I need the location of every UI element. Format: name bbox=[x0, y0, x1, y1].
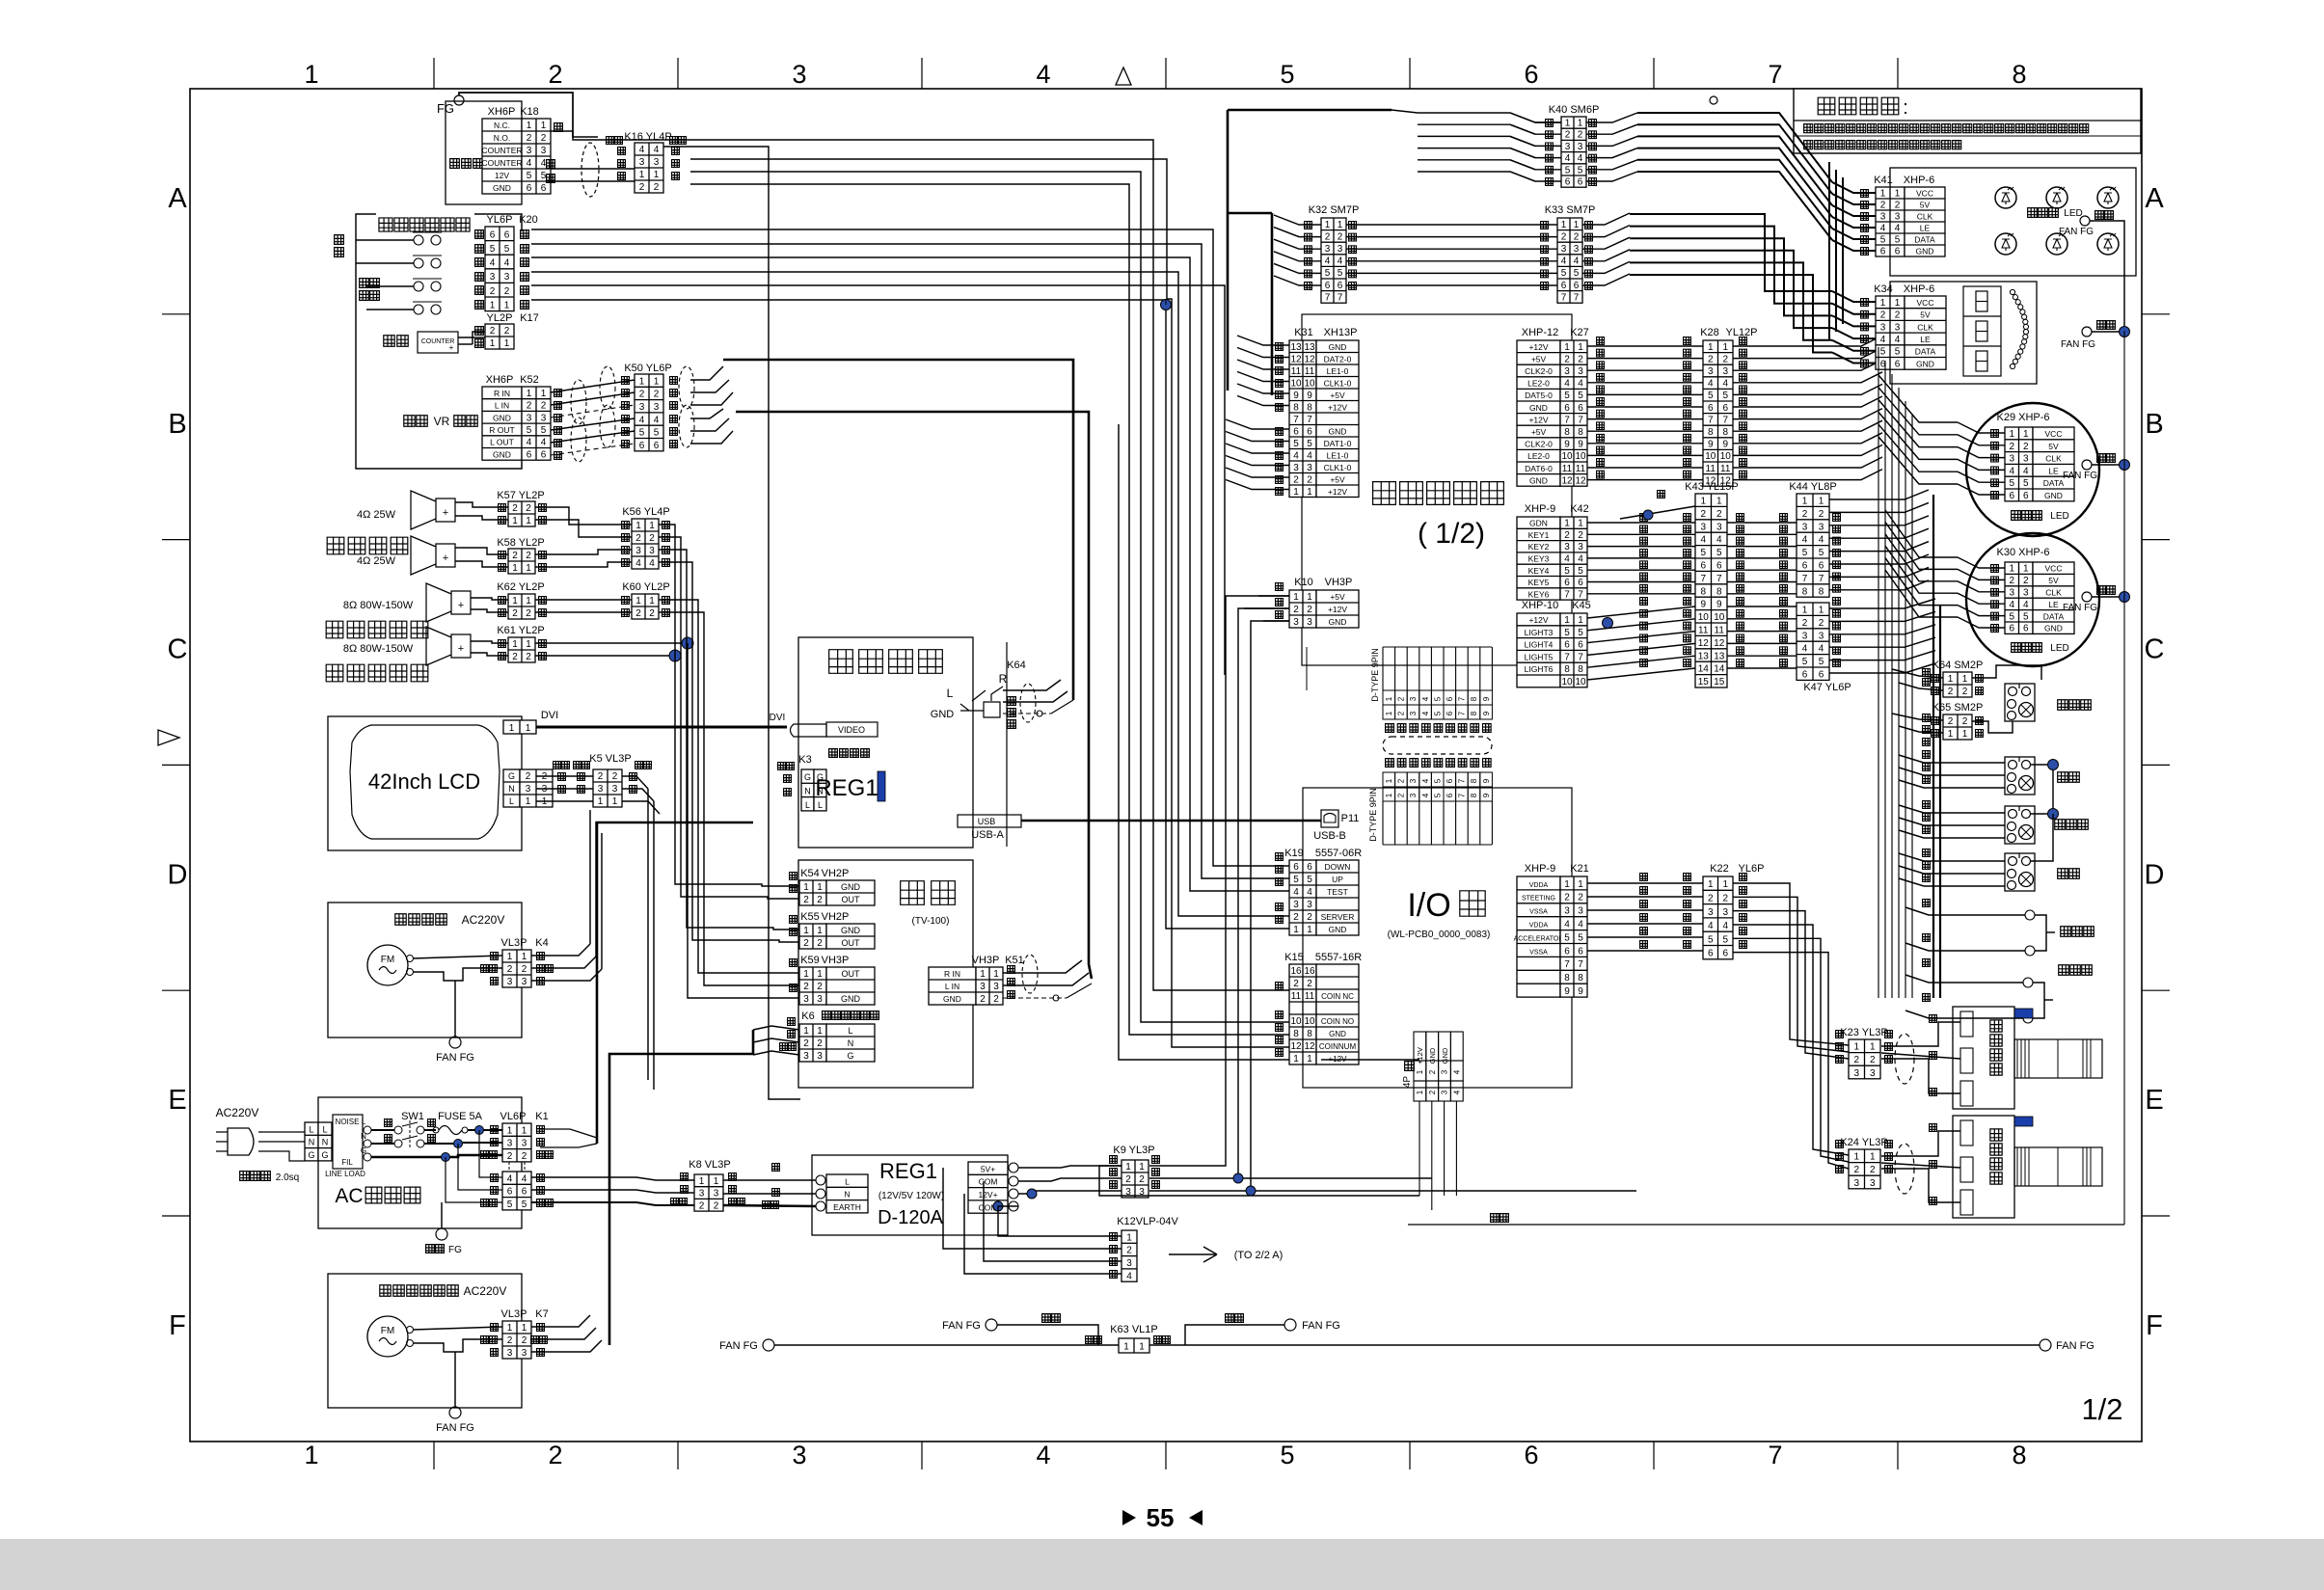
svg-text:K22: K22 bbox=[1710, 863, 1729, 875]
svg-text:1: 1 bbox=[699, 1176, 705, 1187]
IO board box bbox=[1303, 788, 1572, 1088]
svg-text:2: 2 bbox=[526, 771, 531, 782]
svg-text:K6: K6 bbox=[801, 1011, 814, 1022]
svg-text:4: 4 bbox=[2009, 600, 2014, 610]
svg-text:5: 5 bbox=[1565, 165, 1571, 175]
wires K32 to K33 bbox=[1346, 224, 1557, 226]
svg-text:1: 1 bbox=[1948, 729, 1954, 740]
svg-text:5: 5 bbox=[1307, 875, 1312, 885]
svg-text:LE: LE bbox=[1920, 223, 1931, 232]
svg-text:8: 8 bbox=[1716, 586, 1722, 597]
border frame bbox=[190, 89, 2142, 1442]
svg-text:GND: GND bbox=[931, 709, 955, 720]
svg-text:10: 10 bbox=[1561, 677, 1573, 687]
svg-text:K19: K19 bbox=[1284, 848, 1304, 859]
svg-text:5: 5 bbox=[1578, 391, 1583, 401]
svg-text:12: 12 bbox=[1698, 638, 1710, 649]
svg-text:+12V: +12V bbox=[1528, 342, 1548, 352]
connector K52 XH6P bbox=[482, 387, 522, 460]
svg-text:5: 5 bbox=[1338, 268, 1343, 279]
thick earth trunk A bottom fan bbox=[540, 1144, 597, 1147]
svg-text:2: 2 bbox=[803, 982, 809, 992]
svg-text:K7: K7 bbox=[535, 1308, 548, 1320]
chimney right LED circle bbox=[1966, 533, 2099, 666]
svg-text:R: R bbox=[999, 672, 1008, 686]
svg-text:12V+: 12V+ bbox=[978, 1190, 997, 1199]
svg-text:2: 2 bbox=[526, 503, 531, 514]
svg-text:7: 7 bbox=[1578, 415, 1583, 425]
wires K64/K65 to button bbox=[1972, 665, 2041, 680]
svg-text:10: 10 bbox=[1575, 677, 1586, 687]
svg-text:SERVER: SERVER bbox=[1321, 912, 1355, 922]
svg-text:10: 10 bbox=[1714, 612, 1725, 623]
wires K28 right to bus bbox=[1733, 336, 1882, 346]
label 下上 bbox=[335, 235, 344, 245]
svg-text:2: 2 bbox=[1722, 354, 1728, 364]
wires LCD to K5 bbox=[536, 775, 593, 777]
note line 1 bbox=[1804, 124, 1813, 133]
svg-text:XHP-6: XHP-6 bbox=[1904, 283, 1934, 295]
svg-text:4: 4 bbox=[1722, 379, 1728, 390]
wires K20 to column4 bus bbox=[531, 229, 1213, 860]
svg-text:DAT1-0: DAT1-0 bbox=[1324, 439, 1352, 448]
svg-text:1: 1 bbox=[1722, 342, 1728, 353]
svg-text:1: 1 bbox=[1802, 605, 1808, 615]
svg-text:9: 9 bbox=[1564, 986, 1570, 997]
svg-text:VCC: VCC bbox=[1917, 298, 1934, 308]
shield oval K16 left bbox=[581, 143, 599, 197]
svg-text:COUNTER: COUNTER bbox=[481, 158, 522, 168]
gray footer bar bbox=[0, 1539, 2324, 1590]
svg-text:1: 1 bbox=[1564, 879, 1570, 890]
frame row tick bbox=[162, 989, 190, 991]
connector 大4P bbox=[1405, 1062, 1415, 1071]
svg-text:USB-B: USB-B bbox=[1313, 830, 1346, 842]
svg-text:1: 1 bbox=[507, 952, 513, 962]
svg-text:+12V: +12V bbox=[1528, 415, 1548, 424]
svg-text:3: 3 bbox=[1853, 1068, 1859, 1079]
svg-text:LE1-0: LE1-0 bbox=[1327, 366, 1349, 376]
svg-text:1: 1 bbox=[304, 1441, 318, 1469]
svg-text:5: 5 bbox=[1561, 268, 1567, 279]
FAN FG node mid right bbox=[2082, 327, 2092, 337]
junction dots subwoofer bus bbox=[682, 637, 693, 649]
svg-text:+5V: +5V bbox=[1531, 354, 1547, 364]
svg-text:KEY6: KEY6 bbox=[1528, 589, 1550, 599]
svg-text:CLK2-0: CLK2-0 bbox=[1525, 440, 1553, 449]
svg-text:+12V: +12V bbox=[1528, 615, 1548, 625]
frame column tick bbox=[677, 58, 679, 89]
svg-text:2: 2 bbox=[1139, 1174, 1145, 1185]
svg-text:FAN FG: FAN FG bbox=[2063, 471, 2097, 481]
svg-text:10: 10 bbox=[1304, 378, 1315, 389]
svg-text:FM: FM bbox=[381, 955, 394, 965]
svg-text:1: 1 bbox=[803, 969, 809, 980]
svg-text:1: 1 bbox=[817, 926, 823, 936]
svg-text:16: 16 bbox=[1304, 966, 1315, 977]
svg-text:+: + bbox=[443, 552, 448, 564]
speaker horn 1 (4ohm 25W) bbox=[411, 491, 455, 529]
svg-text:3: 3 bbox=[612, 784, 618, 795]
svg-text:4: 4 bbox=[1036, 60, 1050, 89]
svg-text:COUNTER: COUNTER bbox=[481, 146, 522, 155]
svg-text:1: 1 bbox=[993, 969, 999, 980]
svg-text:A: A bbox=[168, 183, 187, 214]
wire K18 FG loop bbox=[459, 93, 598, 137]
svg-text:C: C bbox=[168, 634, 188, 665]
svg-text:2: 2 bbox=[507, 1151, 513, 1162]
svg-text:5: 5 bbox=[1280, 60, 1294, 89]
svg-text:2: 2 bbox=[490, 326, 496, 337]
svg-text:K20: K20 bbox=[519, 214, 538, 226]
frame column tick bbox=[1653, 58, 1655, 89]
svg-text:2: 2 bbox=[2009, 442, 2014, 452]
svg-text:N: N bbox=[844, 1190, 850, 1199]
connector K61 YL2P bbox=[508, 637, 535, 662]
svg-text:2: 2 bbox=[1802, 509, 1808, 520]
svg-text:2: 2 bbox=[654, 182, 660, 193]
svg-text:7: 7 bbox=[1768, 1441, 1782, 1469]
feed verticals K41 K34 fans bbox=[1828, 162, 1830, 339]
svg-text:2: 2 bbox=[1307, 474, 1312, 485]
svg-text:14: 14 bbox=[1698, 664, 1710, 675]
svg-text:4: 4 bbox=[1452, 1090, 1461, 1094]
svg-text:7: 7 bbox=[1307, 415, 1312, 425]
svg-text:3: 3 bbox=[598, 784, 604, 795]
svg-text:K51: K51 bbox=[1005, 955, 1024, 966]
speaker horn 2 (4ohm 25W) bbox=[411, 536, 455, 575]
junction dots near REG outputs bbox=[1027, 1189, 1037, 1199]
svg-text:2: 2 bbox=[2023, 442, 2029, 452]
svg-text:5: 5 bbox=[1433, 711, 1442, 715]
svg-text:1: 1 bbox=[1338, 220, 1343, 230]
svg-text:B: B bbox=[2145, 409, 2163, 440]
svg-text:12: 12 bbox=[1575, 475, 1586, 486]
svg-text:K18: K18 bbox=[520, 106, 539, 118]
shield oval K64 bbox=[1020, 684, 1036, 722]
fan thick bus to K40 bbox=[1392, 110, 1561, 122]
svg-text:6: 6 bbox=[507, 1187, 513, 1198]
svg-text:K44 YL8P: K44 YL8P bbox=[1789, 481, 1836, 493]
svg-text:13: 13 bbox=[1290, 342, 1302, 353]
wire labels REG input 棕蓝绿黄 bbox=[772, 1164, 780, 1172]
svg-text:LE2-0: LE2-0 bbox=[1527, 451, 1550, 461]
button 确定键 bbox=[2005, 806, 2035, 844]
svg-text:LE2-0: LE2-0 bbox=[1527, 379, 1550, 389]
wires K33 right to K34 zone bbox=[1630, 214, 1832, 291]
svg-text:1: 1 bbox=[304, 60, 318, 89]
svg-text:5: 5 bbox=[1880, 234, 1886, 245]
svg-text:2: 2 bbox=[817, 1038, 823, 1049]
svg-text:K10: K10 bbox=[1294, 577, 1313, 588]
connector K65 SM2P bbox=[1943, 714, 1972, 740]
svg-text:GND: GND bbox=[1329, 426, 1347, 436]
svg-text:1: 1 bbox=[598, 796, 604, 807]
svg-text:4: 4 bbox=[1421, 711, 1430, 715]
svg-text:1: 1 bbox=[1880, 298, 1886, 309]
svg-text:1: 1 bbox=[1139, 1342, 1145, 1353]
svg-text:2: 2 bbox=[1397, 696, 1406, 701]
svg-text:+5V: +5V bbox=[1330, 391, 1345, 400]
FAN FG stub mid bbox=[986, 1319, 997, 1331]
svg-text:5: 5 bbox=[1280, 1441, 1294, 1469]
svg-text:1: 1 bbox=[504, 338, 510, 349]
FG wire bottom corner bbox=[1408, 1224, 2124, 1226]
svg-text:+: + bbox=[458, 643, 464, 655]
svg-text:GND: GND bbox=[1329, 925, 1347, 934]
svg-text:XHP-12: XHP-12 bbox=[1522, 327, 1559, 338]
svg-text:1: 1 bbox=[1962, 729, 1968, 740]
wire fan K40 left bbox=[1510, 113, 1561, 122]
svg-text:7: 7 bbox=[1458, 778, 1467, 783]
svg-text:L: L bbox=[848, 1026, 852, 1036]
svg-text:1: 1 bbox=[1870, 1152, 1876, 1163]
svg-text:1: 1 bbox=[1564, 342, 1570, 353]
wire color glyphs lower bbox=[1386, 759, 1394, 768]
svg-text:5: 5 bbox=[1564, 391, 1570, 401]
svg-text:5: 5 bbox=[654, 428, 660, 439]
shield oval K24 bbox=[1895, 1144, 1914, 1194]
label 烟筒右LED bbox=[2012, 643, 2021, 653]
svg-text:3: 3 bbox=[980, 982, 986, 992]
svg-text:5: 5 bbox=[541, 425, 547, 436]
svg-text:5: 5 bbox=[1433, 696, 1442, 701]
svg-text:4: 4 bbox=[1895, 335, 1901, 345]
connector K9 YL3P bbox=[1121, 1160, 1148, 1198]
svg-text:(12V/5V 120W): (12V/5V 120W) bbox=[878, 1191, 944, 1201]
svg-text:AC220V: AC220V bbox=[462, 913, 505, 927]
svg-text:2: 2 bbox=[1948, 716, 1954, 727]
svg-text:9: 9 bbox=[1722, 440, 1728, 450]
fans right bus to K30 bbox=[1885, 510, 1958, 557]
wires K52 to K50 bbox=[551, 380, 635, 392]
svg-text:7: 7 bbox=[1578, 652, 1583, 662]
svg-text:6: 6 bbox=[1708, 949, 1714, 959]
wire labels 黄紫 at SW1 bbox=[385, 1119, 392, 1127]
wire labels K29 left bbox=[1991, 430, 1999, 438]
svg-text:6: 6 bbox=[1325, 281, 1331, 291]
svg-text:GDN: GDN bbox=[1529, 519, 1548, 528]
connector K63 VL1P bbox=[1119, 1338, 1149, 1353]
svg-text:6: 6 bbox=[1564, 640, 1570, 651]
svg-text:2: 2 bbox=[817, 895, 823, 905]
svg-text:2: 2 bbox=[1716, 509, 1722, 520]
wire bus between buttons bbox=[2031, 765, 2053, 814]
thick earth trunk B bbox=[609, 1030, 753, 1345]
note line 2 bbox=[1804, 141, 1813, 149]
svg-text:GND: GND bbox=[1529, 403, 1548, 413]
svg-text:FAN FG: FAN FG bbox=[1302, 1320, 1340, 1332]
connector K4 VL3P bbox=[502, 950, 531, 987]
svg-text:2: 2 bbox=[993, 994, 999, 1005]
svg-text:CLK1-0: CLK1-0 bbox=[1324, 463, 1352, 472]
svg-text:3: 3 bbox=[1561, 244, 1567, 255]
svg-text:8: 8 bbox=[1307, 402, 1312, 413]
svg-text:(TV-100): (TV-100) bbox=[912, 916, 950, 927]
svg-text:9: 9 bbox=[1293, 391, 1299, 401]
left feeds to K23 bbox=[1790, 993, 1849, 1045]
svg-text:2.0sq: 2.0sq bbox=[276, 1172, 299, 1183]
svg-text:+: + bbox=[443, 507, 448, 519]
svg-text:7: 7 bbox=[1578, 959, 1583, 970]
svg-text:7: 7 bbox=[1338, 292, 1343, 303]
svg-text:3: 3 bbox=[1564, 366, 1570, 377]
svg-text:7: 7 bbox=[1574, 292, 1580, 303]
svg-text:1: 1 bbox=[639, 376, 645, 387]
svg-text:K64: K64 bbox=[1007, 660, 1026, 671]
svg-text:STEETING: STEETING bbox=[1522, 896, 1555, 903]
svg-text:1: 1 bbox=[541, 389, 547, 399]
wires K9 right up to K10 bbox=[1149, 596, 1289, 1166]
svg-text:GND: GND bbox=[1916, 359, 1934, 368]
expansion board label 扩展控制板 bbox=[1373, 482, 1396, 505]
svg-text:6: 6 bbox=[1564, 403, 1570, 414]
svg-text:L: L bbox=[845, 1176, 850, 1186]
shield ovals K50 sides bbox=[600, 366, 615, 409]
wires K64 audio to right bbox=[1003, 680, 1061, 690]
main unit 主机部分 box bbox=[798, 637, 973, 848]
svg-text:5: 5 bbox=[2009, 611, 2014, 622]
svg-text:4: 4 bbox=[1802, 644, 1808, 655]
svg-text:6: 6 bbox=[1802, 669, 1808, 680]
svg-text:9: 9 bbox=[1482, 711, 1491, 715]
svg-text:5: 5 bbox=[1802, 657, 1808, 667]
svg-text:5557-06R: 5557-06R bbox=[1315, 848, 1362, 859]
connector K22 YL6P bbox=[1703, 876, 1733, 959]
svg-text:3: 3 bbox=[803, 994, 809, 1005]
wires into K8 from left bbox=[531, 1177, 694, 1180]
svg-text:1: 1 bbox=[2009, 429, 2014, 440]
svg-text:2: 2 bbox=[1708, 893, 1714, 903]
svg-text:9: 9 bbox=[1578, 986, 1583, 997]
svg-text:VH3P: VH3P bbox=[1325, 577, 1353, 588]
svg-text:R IN: R IN bbox=[944, 969, 960, 979]
svg-text:L IN: L IN bbox=[945, 982, 959, 991]
svg-text:5: 5 bbox=[1722, 391, 1728, 401]
svg-text:3: 3 bbox=[1293, 900, 1299, 910]
svg-text:1: 1 bbox=[1293, 925, 1299, 935]
svg-text:3: 3 bbox=[507, 977, 513, 987]
wire fan K40 right bbox=[1586, 113, 1637, 122]
svg-text:XHP-9: XHP-9 bbox=[1525, 503, 1555, 515]
svg-text:3: 3 bbox=[1708, 907, 1714, 918]
svg-text:K24 YL3P: K24 YL3P bbox=[1840, 1137, 1887, 1148]
svg-text:+12V: +12V bbox=[1416, 1047, 1424, 1064]
svg-text:2: 2 bbox=[1564, 530, 1570, 541]
svg-text:OUT: OUT bbox=[842, 969, 861, 979]
svg-text:2: 2 bbox=[1962, 687, 1968, 697]
svg-text:K63 VL1P: K63 VL1P bbox=[1110, 1324, 1158, 1335]
svg-text:KEY2: KEY2 bbox=[1528, 542, 1550, 552]
connector K12VLP-04V bbox=[1121, 1230, 1137, 1281]
svg-text:UP: UP bbox=[1332, 875, 1343, 884]
wire labels K52 right 白红黑 bbox=[554, 390, 562, 397]
svg-text:1: 1 bbox=[1564, 519, 1570, 529]
svg-text:5: 5 bbox=[1433, 793, 1442, 797]
svg-text:( 1/2): ( 1/2) bbox=[1418, 518, 1485, 550]
svg-text:L IN: L IN bbox=[495, 401, 509, 411]
svg-text:3: 3 bbox=[1578, 906, 1583, 917]
svg-text:3: 3 bbox=[1564, 906, 1570, 917]
label 测试服务 bbox=[360, 279, 369, 288]
svg-text:2: 2 bbox=[817, 938, 823, 949]
connector K50 YL6P bbox=[635, 374, 663, 451]
svg-text:GND: GND bbox=[1441, 1047, 1449, 1064]
svg-text:6: 6 bbox=[1446, 711, 1454, 715]
svg-text:K30 XHP-6: K30 XHP-6 bbox=[1996, 547, 2049, 558]
svg-text:10: 10 bbox=[1698, 612, 1710, 623]
svg-text:1: 1 bbox=[980, 969, 986, 980]
small circle mark top right bbox=[1710, 96, 1717, 104]
wires into K10 bbox=[1258, 595, 1289, 597]
potentiometer body 1 bbox=[2014, 1039, 2102, 1078]
svg-text:LINE LOAD: LINE LOAD bbox=[325, 1170, 365, 1178]
svg-text:2: 2 bbox=[1578, 130, 1583, 141]
feeds to brake switches bbox=[1905, 907, 2025, 915]
svg-text:LED: LED bbox=[2050, 511, 2068, 522]
connector K28 YL12P bbox=[1703, 340, 1733, 486]
svg-text:+5V: +5V bbox=[1330, 592, 1345, 602]
svg-text:4: 4 bbox=[1126, 1271, 1132, 1281]
svg-text:1: 1 bbox=[1819, 605, 1824, 615]
svg-text:3: 3 bbox=[1441, 1090, 1449, 1094]
svg-text:K47 YL6P: K47 YL6P bbox=[1803, 682, 1851, 693]
svg-text:DATA: DATA bbox=[1915, 347, 1936, 357]
svg-text:R OUT: R OUT bbox=[489, 425, 514, 435]
svg-text:8: 8 bbox=[1819, 586, 1824, 597]
thick bus to K32/K31 bbox=[1228, 109, 1392, 112]
svg-text:N: N bbox=[508, 784, 515, 794]
svg-text:1: 1 bbox=[1708, 879, 1714, 890]
svg-text:VDDA: VDDA bbox=[1529, 882, 1549, 889]
svg-text:6: 6 bbox=[527, 449, 532, 460]
LED diode symbols top row bbox=[1995, 187, 2016, 208]
svg-text:2: 2 bbox=[1700, 509, 1706, 520]
svg-text:55: 55 bbox=[1147, 1503, 1175, 1532]
svg-text:COIN NO: COIN NO bbox=[1321, 1017, 1354, 1026]
svg-text:L: L bbox=[509, 796, 514, 806]
svg-text:13: 13 bbox=[1304, 342, 1315, 353]
svg-text:2: 2 bbox=[1564, 893, 1570, 903]
wire labels K9 bbox=[1110, 1156, 1118, 1164]
wires K24 to pot 2 bbox=[1930, 1124, 1937, 1132]
svg-text:N: N bbox=[848, 1038, 854, 1048]
svg-text:K23 YL3P: K23 YL3P bbox=[1840, 1027, 1887, 1038]
svg-text:2: 2 bbox=[649, 608, 655, 619]
svg-text:9: 9 bbox=[1700, 600, 1706, 610]
svg-text:DATA: DATA bbox=[1914, 234, 1935, 244]
svg-text:3: 3 bbox=[1293, 463, 1299, 473]
svg-text:7: 7 bbox=[1564, 589, 1570, 600]
svg-text:K56 YL4P: K56 YL4P bbox=[622, 506, 669, 518]
wire fan K33 right bbox=[1582, 213, 1630, 225]
connector K8 VL3P bbox=[694, 1174, 723, 1211]
svg-text:2: 2 bbox=[522, 1151, 527, 1162]
svg-text:8: 8 bbox=[1564, 973, 1570, 984]
svg-text:6: 6 bbox=[1802, 560, 1808, 571]
svg-text:K54: K54 bbox=[800, 868, 820, 879]
svg-text:K4: K4 bbox=[535, 937, 548, 949]
svg-text:7: 7 bbox=[1458, 711, 1467, 715]
svg-text:USB-A: USB-A bbox=[971, 829, 1004, 841]
svg-text:4: 4 bbox=[1307, 887, 1312, 898]
shield oval K51 bbox=[1022, 955, 1038, 993]
svg-text:F: F bbox=[169, 1310, 186, 1341]
svg-text:5: 5 bbox=[1433, 778, 1442, 783]
FG bus wire bottom bbox=[763, 1339, 774, 1351]
frame column tick bbox=[1165, 58, 1167, 89]
svg-text:8Ω 80W-150W: 8Ω 80W-150W bbox=[343, 643, 414, 655]
